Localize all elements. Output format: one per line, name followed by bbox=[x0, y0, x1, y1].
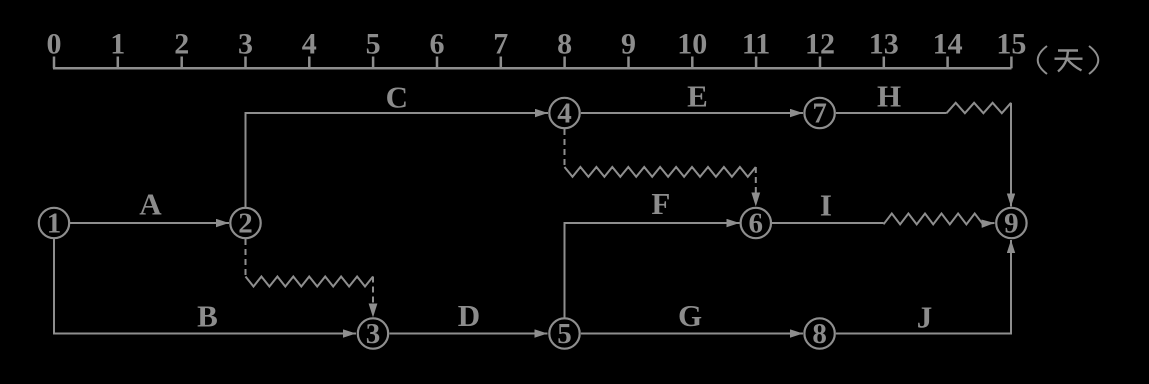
activity A arrow (1 to 2) bbox=[70, 222, 229, 224]
svg-text:7: 7 bbox=[493, 28, 508, 61]
activity G arrow (5 to 8) bbox=[581, 333, 803, 335]
svg-text:11: 11 bbox=[742, 28, 770, 61]
dummy 2-3 wavy bbox=[246, 277, 374, 287]
svg-text:8: 8 bbox=[812, 318, 827, 350]
svg-text:3: 3 bbox=[238, 28, 253, 61]
node 1 bbox=[39, 207, 69, 239]
node 9 bbox=[996, 207, 1026, 239]
svg-text:E: E bbox=[687, 78, 708, 113]
svg-text:8: 8 bbox=[557, 28, 572, 61]
svg-text:13: 13 bbox=[869, 28, 899, 61]
dummy 2-3 dashed drop bbox=[245, 239, 247, 276]
activity I free-float wavy bbox=[884, 214, 984, 225]
activity B arrow (1 to 3) bbox=[54, 239, 356, 334]
svg-text:D: D bbox=[458, 298, 480, 333]
axis ticks 0-15 bbox=[54, 57, 1011, 69]
svg-text:1: 1 bbox=[110, 28, 125, 61]
svg-text:F: F bbox=[651, 186, 670, 221]
activity D arrow (3 to 5) bbox=[390, 333, 548, 335]
svg-text:5: 5 bbox=[557, 318, 572, 350]
svg-text:9: 9 bbox=[1004, 207, 1019, 239]
activity E arrow (4 to 7) bbox=[581, 112, 803, 114]
activity J arrow (8 to 9) bbox=[836, 240, 1011, 334]
svg-text:3: 3 bbox=[366, 318, 381, 350]
dummy 4-6 dashed drop bbox=[564, 129, 566, 167]
svg-text:H: H bbox=[877, 79, 901, 114]
svg-text:A: A bbox=[139, 187, 162, 222]
svg-text:4: 4 bbox=[302, 28, 317, 61]
svg-text:6: 6 bbox=[749, 207, 764, 239]
activity C arrow (2 to 4) bbox=[246, 113, 549, 208]
svg-text:6: 6 bbox=[430, 28, 445, 61]
svg-text:7: 7 bbox=[812, 97, 827, 129]
node 8 bbox=[804, 318, 834, 350]
svg-text:9: 9 bbox=[621, 28, 636, 61]
svg-text:B: B bbox=[197, 299, 218, 334]
node 5 bbox=[549, 318, 579, 350]
node 2 bbox=[230, 207, 260, 239]
axis unit label (天) bbox=[1038, 46, 1099, 74]
time axis line bbox=[53, 67, 1012, 70]
activity F arrow (5 to 6) bbox=[565, 223, 740, 318]
svg-text:10: 10 bbox=[677, 28, 707, 61]
svg-text:G: G bbox=[678, 298, 702, 333]
dummy 4-6 wavy bbox=[565, 167, 756, 177]
svg-text:5: 5 bbox=[366, 28, 381, 61]
svg-text:0: 0 bbox=[47, 28, 62, 61]
svg-text:I: I bbox=[820, 188, 832, 223]
svg-text:J: J bbox=[917, 300, 933, 335]
node 3 bbox=[358, 318, 388, 350]
svg-text:15: 15 bbox=[996, 28, 1026, 61]
activity H arrow into node 9 bbox=[1010, 103, 1012, 207]
activity H line (7 to 9) bbox=[836, 112, 947, 114]
activity H free-float wavy bbox=[947, 103, 1012, 113]
svg-text:2: 2 bbox=[238, 207, 253, 239]
node 6 bbox=[741, 207, 771, 239]
node 7 bbox=[804, 97, 834, 129]
activity I arrow into node 9 bbox=[983, 222, 995, 225]
svg-text:C: C bbox=[386, 79, 408, 114]
svg-text:2: 2 bbox=[174, 28, 189, 61]
dummy 2-3 dashed arrow into node 3 bbox=[372, 277, 374, 305]
svg-text:14: 14 bbox=[933, 28, 963, 61]
activity I line (6 to 9) bbox=[772, 222, 884, 224]
dummy 4-6 dashed arrow into node 6 bbox=[755, 167, 757, 194]
svg-text:1: 1 bbox=[47, 207, 62, 239]
svg-text:12: 12 bbox=[805, 28, 835, 61]
svg-text:4: 4 bbox=[557, 97, 572, 129]
node 4 bbox=[549, 97, 579, 129]
axis numbers 0-15 bbox=[47, 28, 1027, 61]
